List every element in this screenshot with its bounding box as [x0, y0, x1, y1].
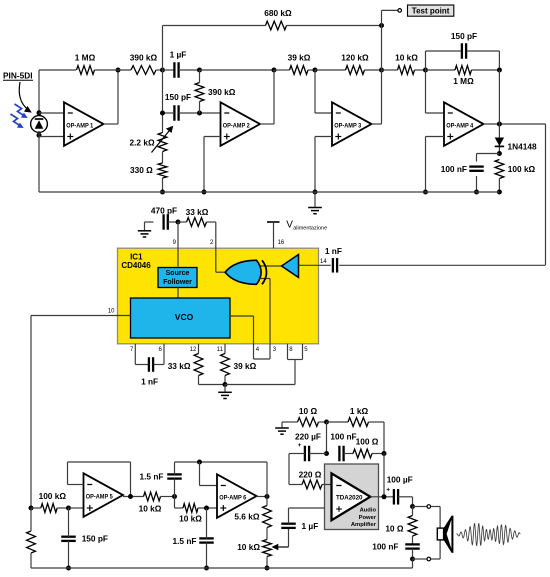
wire node A to C1	[163, 69, 175, 71]
wire XOR upper input	[256, 265, 282, 267]
pin 10 wire	[31, 315, 131, 317]
pin label 4	[256, 347, 260, 353]
svg-text:alimentazione: alimentazione	[293, 225, 327, 231]
resistor R13 39 k&#937;	[221, 354, 230, 376]
node R10 rail	[497, 190, 502, 195]
node 330 rail	[160, 190, 165, 195]
capacitor C13 220 &#181;F	[298, 442, 309, 461]
node pot rail	[265, 566, 270, 571]
wire op-amp 3 inv input	[315, 70, 332, 113]
label 1 &#181;F	[170, 49, 187, 59]
wire node F to R9	[426, 69, 456, 71]
svg-text:Audio: Audio	[360, 508, 377, 514]
label 390 k&#937;	[130, 53, 158, 63]
wire R9 to node G	[472, 69, 500, 71]
svg-text:1 kΩ: 1 kΩ	[350, 406, 369, 416]
label 1.5 nF lower	[173, 536, 197, 546]
wire C12 to TDA plus	[289, 508, 332, 524]
svg-text:OP-AMP 6: OP-AMP 6	[219, 494, 246, 501]
wire photodiode cathode vertical	[38, 70, 40, 117]
capacitor C8 1 nF pins 7-6	[149, 357, 153, 372]
svg-text:V: V	[286, 220, 293, 231]
svg-text:OP-AMP 2: OP-AMP 2	[223, 122, 250, 129]
node C5 rail	[474, 190, 479, 195]
wire node C to R5	[274, 69, 290, 71]
svg-text:470 pF: 470 pF	[151, 205, 177, 215]
wire C13 stubs	[289, 453, 327, 455]
wire op-amp 1 output	[104, 70, 119, 124]
label 1 nF pin14	[325, 246, 342, 256]
svg-text:CD4046: CD4046	[121, 261, 151, 270]
capacitor C6 470 pF	[164, 214, 168, 230]
leader arrow to photodiode	[19, 82, 32, 113]
pin label 3	[273, 347, 277, 353]
node photodiode anode	[37, 133, 42, 138]
resistor R11 33 k&#937;	[187, 218, 207, 227]
wire R20 to boucherot node	[369, 422, 385, 454]
resistor R14 100 k&#937;	[41, 504, 57, 513]
svg-text:OP-AMP 4: OP-AMP 4	[446, 122, 473, 129]
wire node to R11	[178, 221, 187, 223]
resistor R8 10 k&#937;	[398, 66, 415, 75]
wire R12 to ground node	[199, 376, 226, 385]
wire TDA minus	[322, 484, 332, 486]
svg-text:Test point: Test point	[412, 7, 450, 16]
wire R17 to op-amp 6 plus	[198, 507, 217, 509]
label 10 k&#937; op5 out	[139, 504, 162, 514]
wire to bottom terminal	[413, 558, 428, 560]
wire R13 to ground node	[224, 376, 226, 385]
node decoupling	[324, 451, 329, 456]
wire node A up to 680k row	[163, 26, 266, 71]
svg-text:1 MΩ: 1 MΩ	[453, 76, 474, 86]
node 2.2k top	[160, 111, 165, 116]
wire R10 to rail	[498, 179, 500, 193]
wire 150 pF branch	[426, 51, 500, 70]
node speaker top	[410, 504, 415, 509]
label 2.2 k&#937;	[130, 137, 155, 147]
pin label 12	[190, 347, 197, 353]
label 39 k&#937; pin 11	[234, 361, 257, 371]
resistor R10 100 k&#937;	[495, 160, 504, 179]
svg-text:390 kΩ: 390 kΩ	[130, 53, 158, 63]
pin label 16	[278, 240, 285, 246]
label 1N4148	[508, 142, 537, 152]
wire node G down	[498, 70, 500, 124]
node op-amp 4 plus rail	[423, 190, 428, 195]
capacitor C2 150 pF	[174, 105, 178, 121]
resistor R22 220 &#937;	[302, 480, 322, 489]
capacitor C16 100 nF	[405, 544, 420, 548]
wire C6 to node pin9	[168, 221, 178, 223]
node A	[160, 68, 165, 73]
svg-text:1 µF: 1 µF	[302, 521, 319, 531]
node G	[497, 68, 502, 73]
svg-text:5.6 kΩ: 5.6 kΩ	[234, 512, 259, 522]
wire supply node down	[326, 422, 328, 454]
svg-text:150 pF: 150 pF	[82, 534, 108, 544]
svg-text:OP-AMP 3: OP-AMP 3	[334, 122, 361, 129]
wire trimmer to 330	[162, 152, 164, 164]
sound waves	[457, 524, 521, 546]
wire R18 stubs	[266, 497, 268, 540]
label 220 &#181;F	[295, 432, 321, 442]
node C9 rail	[66, 566, 71, 571]
wire pins 8-5 bracket	[288, 344, 303, 360]
svg-text:16: 16	[278, 240, 285, 246]
svg-text:1 MΩ: 1 MΩ	[75, 53, 96, 63]
node F	[423, 68, 428, 73]
label 10 &#937; supply	[299, 406, 318, 416]
label 150 pF op-amp 4	[451, 31, 477, 41]
svg-text:150 pF: 150 pF	[165, 92, 191, 102]
speaker LS1	[437, 516, 453, 553]
svg-text:10 Ω: 10 Ω	[299, 406, 318, 416]
svg-text:+: +	[386, 487, 390, 494]
wire C2 to op-amp 2 inv input	[179, 112, 221, 114]
wire R15 stubs	[30, 508, 32, 568]
svg-text:100 nF: 100 nF	[372, 542, 398, 552]
wire C7 to op-amp4 output	[339, 264, 545, 266]
resistor R20 1 k&#937;	[348, 418, 369, 427]
op-amp U2 OP-AMP 2	[221, 102, 261, 146]
wire node H down	[175, 497, 184, 509]
svg-text:PIN-5DI: PIN-5DI	[3, 71, 33, 81]
TDA2020 body	[325, 464, 379, 530]
wire op-amp 6 feedback top	[175, 461, 268, 463]
label 100 nF decoupling	[330, 432, 356, 442]
ground vco	[218, 385, 232, 399]
wire cathode to op-amp 1 inverting input	[39, 112, 64, 114]
label 390 k&#937; feedback	[208, 87, 236, 97]
svg-text:10 kΩ: 10 kΩ	[139, 504, 162, 514]
wire R19 stubs	[290, 421, 327, 423]
wire pin 11	[224, 344, 226, 354]
svg-text:1 µF: 1 µF	[170, 49, 187, 59]
label audio power amplifier	[351, 508, 377, 529]
svg-text:Power: Power	[359, 515, 377, 521]
svg-text:14: 14	[320, 259, 327, 265]
svg-text:100 nF: 100 nF	[441, 164, 467, 174]
label 100 nF peak det	[441, 164, 467, 174]
svg-text:Source: Source	[166, 270, 190, 277]
op-amp U5 OP-AMP 5	[84, 473, 124, 517]
svg-text:1.5 nF: 1.5 nF	[173, 536, 197, 546]
wire node E up	[381, 26, 383, 71]
pin label 7	[130, 347, 134, 353]
svg-text:100 Ω: 100 Ω	[356, 437, 379, 447]
label 39 k&#937;	[288, 53, 311, 63]
ground supply 10 &#937;	[275, 422, 289, 434]
wire R4 stubs	[199, 70, 201, 113]
capacitor C12 1 &#181;F	[281, 524, 296, 528]
label 33 k&#937; pin2	[186, 207, 209, 217]
wire anode down to rail	[38, 131, 40, 192]
node boucherot top	[382, 451, 387, 456]
label 150 pF op-amp 2 input	[165, 92, 191, 102]
node E op-amp 3 output	[379, 68, 384, 73]
wire op-amp 4 inv input	[426, 70, 445, 113]
signal amplifier triangle	[282, 255, 299, 278]
capacitor C4 150 pF	[462, 43, 466, 59]
label 680 k&#937;	[264, 8, 292, 18]
svg-text:100 µF: 100 µF	[387, 475, 413, 485]
capacitor C5 100 nF	[469, 167, 484, 171]
svg-text:1N4148: 1N4148	[508, 142, 537, 152]
wire op-amp 3 plus input	[315, 137, 332, 193]
node op-amp 1 output	[116, 68, 121, 73]
node H	[172, 494, 177, 499]
label 100 k&#937; peak det	[508, 164, 536, 174]
label 100 k&#937; input	[39, 491, 67, 501]
wire op-amp 2 plus input	[204, 137, 221, 193]
label 10 k&#937;	[395, 53, 418, 63]
node op-amp 6 plus	[204, 506, 209, 511]
label 1.5 nF upper	[140, 472, 164, 482]
svg-text:Amplifier: Amplifier	[351, 522, 377, 528]
wire op-amp 5 feedback	[68, 462, 131, 497]
svg-text:2.2 kΩ: 2.2 kΩ	[130, 137, 155, 147]
svg-text:1 nF: 1 nF	[141, 377, 158, 387]
wire R2 to node A	[156, 69, 163, 71]
wire speaker bottom lead	[431, 540, 441, 559]
wire diode to 100nF branch	[477, 154, 500, 162]
wire C1 to node B	[179, 69, 200, 71]
svg-text:VCO: VCO	[175, 312, 194, 322]
node op-amp 2 inv input	[197, 111, 202, 116]
label 330 &#937;	[130, 165, 153, 175]
resistor R1 1 M&#937;	[77, 66, 95, 75]
capacitor C9 150 pF	[61, 537, 76, 541]
label 5.6 k&#937;	[234, 512, 259, 522]
label CD4046	[121, 261, 151, 270]
ground rail op-amp section	[39, 191, 499, 193]
svg-text:10: 10	[108, 309, 115, 315]
capacitor C14 100 nF	[339, 446, 343, 462]
node op-amp 2 plus rail	[202, 190, 207, 195]
wire VCO out to pin 4	[230, 316, 254, 344]
op-amp U4 OP-AMP 4	[444, 102, 484, 146]
wire pin 6	[153, 344, 164, 365]
wire C9 stubs	[68, 508, 70, 568]
node photodiode cathode	[37, 110, 42, 115]
label 100 &#181;F	[387, 475, 413, 485]
capacitor C1 1 &#181;F	[174, 62, 178, 78]
svg-text:100 nF: 100 nF	[330, 432, 356, 442]
wire TDA output	[370, 496, 394, 498]
resistor R5 39 k&#937;	[290, 66, 309, 75]
wire bottom node to rail	[412, 559, 414, 568]
terminal speaker top	[427, 505, 431, 509]
label 150 pF op-amp 5	[82, 534, 108, 544]
light arrow 2	[11, 114, 24, 128]
resistor R17 10 k&#937;	[183, 504, 198, 513]
terminal speaker bottom	[427, 557, 431, 561]
wire SF to VCO	[177, 288, 179, 299]
pin label 10	[108, 309, 115, 315]
wire to R20	[327, 421, 349, 423]
pin label 9	[173, 240, 177, 246]
node op-amp 6 output	[265, 494, 270, 499]
label 1 &#181;F TDA	[302, 521, 319, 531]
label 120 k&#937;	[341, 53, 369, 63]
capacitor C15 100 &#181;F	[386, 487, 398, 505]
label 1 M&#937;	[75, 53, 96, 63]
op-amp U1 OP-AMP 1	[64, 102, 104, 146]
resistor R6 330 &#937;	[158, 163, 167, 178]
op-amp U3 OP-AMP 3	[332, 102, 372, 146]
resistor R4 390 k&#937; feedback	[195, 83, 204, 102]
wire 680k to node E2	[287, 25, 382, 27]
svg-text:39 kΩ: 39 kΩ	[288, 53, 311, 63]
wire output down right side	[545, 124, 547, 265]
pin label 8	[289, 347, 293, 353]
node input divider	[29, 506, 34, 511]
label 100 &#937;	[356, 437, 379, 447]
resistor R12 33 k&#937;	[194, 354, 203, 376]
svg-text:12: 12	[190, 347, 197, 353]
resistor R18 5.6 k&#937;	[263, 506, 272, 528]
wire pins 8-5 to ground	[225, 360, 295, 385]
svg-text:100 kΩ: 100 kΩ	[39, 491, 67, 501]
wire R5 to node D	[308, 69, 315, 71]
svg-text:10 Ω: 10 Ω	[385, 524, 404, 534]
resistor R23 10 &#937;	[408, 516, 417, 537]
source follower block	[158, 268, 197, 288]
node C11 rail	[204, 566, 209, 571]
wire node D to R7	[315, 69, 346, 71]
wire C10 stubs	[174, 462, 176, 497]
node 680k right	[379, 23, 384, 28]
VCO block	[131, 298, 231, 338]
node vco ground	[223, 382, 228, 387]
ground op-amp 3	[308, 192, 322, 214]
svg-text:330 Ω: 330 Ω	[130, 165, 153, 175]
label 10 k&#937; volume	[237, 542, 260, 552]
label V alimentazione	[286, 220, 327, 232]
wire photodiode to feedback row	[39, 69, 76, 71]
node D	[313, 68, 318, 73]
svg-text:33 kΩ: 33 kΩ	[186, 207, 209, 217]
svg-text:10 kΩ: 10 kΩ	[179, 514, 202, 524]
wire anode to op-amp 1 non-inverting input	[39, 136, 64, 138]
label PIN-5DI	[3, 71, 33, 81]
wire node E to R8	[382, 69, 398, 71]
svg-text:10 kΩ: 10 kΩ	[395, 53, 418, 63]
svg-text:11: 11	[217, 347, 224, 353]
pin 9 wire	[177, 222, 179, 267]
node B	[197, 68, 202, 73]
svg-text:TDA2020: TDA2020	[336, 495, 363, 502]
wire pin 7	[135, 344, 149, 365]
node TDA output	[382, 494, 387, 499]
node speaker bottom	[410, 557, 415, 562]
resistor R15 bias	[27, 531, 36, 553]
photodiode PIN-5DI	[31, 116, 48, 133]
svg-text:+: +	[298, 442, 302, 449]
wire op-amp 4 output	[484, 123, 546, 125]
wire R16 to node H	[161, 496, 175, 498]
svg-text:680 kΩ: 680 kΩ	[264, 8, 292, 18]
pin label 6	[158, 347, 162, 353]
wire op-amp 4 plus input	[426, 137, 445, 193]
node op-amp 5 output	[128, 494, 133, 499]
resistor R19 10 &#937;	[298, 418, 319, 427]
potentiometer 10 k&#937;	[263, 540, 289, 557]
resistor R21 100 &#937;	[353, 449, 372, 458]
svg-text:39 kΩ: 39 kΩ	[234, 361, 257, 371]
label 100 nF zobel	[372, 542, 398, 552]
node supply filter	[324, 420, 329, 425]
label IC1	[130, 253, 143, 262]
wire to top terminal	[413, 506, 428, 508]
svg-text:33 kΩ: 33 kΩ	[168, 361, 191, 371]
wire C5 to rail	[476, 176, 478, 192]
pin label 5	[304, 347, 308, 353]
label 33 k&#937; pin 12	[168, 361, 191, 371]
svg-text:100 kΩ: 100 kΩ	[508, 164, 536, 174]
wire XOR lower input pin 3	[261, 279, 270, 344]
trimmer 2.2 k&#937;	[152, 126, 174, 153]
resistor R2 390 k&#937;	[131, 66, 156, 75]
wire pot to rail	[266, 557, 268, 569]
wire R11 to pin 2	[207, 222, 227, 272]
node op-amp 4 output	[497, 122, 502, 127]
wire 220 &#937; up	[289, 454, 302, 485]
wire op-amp 5 output	[123, 496, 144, 498]
pin label 2	[210, 240, 214, 246]
label 1 M&#937; op-amp 4	[453, 76, 474, 86]
wire test point	[382, 10, 398, 25]
wire node B to node C	[200, 69, 275, 71]
svg-text:OP-AMP 1: OP-AMP 1	[66, 122, 93, 129]
wire R7 to node E	[365, 69, 382, 71]
node op-amp 5 plus	[66, 506, 71, 511]
pin label 14	[320, 259, 327, 265]
resistor R3 680 k&#937;	[266, 21, 287, 30]
svg-text:Follower: Follower	[163, 279, 192, 286]
wire to op-amp 5 plus	[69, 507, 84, 509]
wire R21 to node	[372, 453, 384, 455]
pin 14 wire	[299, 264, 331, 266]
svg-text:220 µF: 220 µF	[295, 432, 321, 442]
label 10 k&#937; op6 in	[179, 514, 202, 524]
label 1 nF pins 7-6	[141, 377, 158, 387]
svg-text:120 kΩ: 120 kΩ	[341, 53, 369, 63]
test point terminal	[398, 9, 402, 13]
supply V alimentazione	[267, 222, 280, 248]
wire speaker top lead	[431, 507, 441, 529]
wire C15 to speaker node	[398, 497, 412, 507]
resistor R7 120 k&#937;	[346, 66, 365, 75]
wire 330 to rail	[162, 178, 164, 192]
wire R8 to node F	[415, 69, 426, 71]
IC1 CD4046 body	[118, 248, 319, 344]
wire node down to output	[383, 454, 385, 498]
svg-text:OP-AMP 5: OP-AMP 5	[86, 493, 113, 500]
ground 470 pF	[138, 222, 154, 237]
wire op-amp 6 output	[257, 496, 268, 498]
ground rail audio section	[31, 567, 413, 569]
phase comparator XOR gate	[225, 260, 266, 284]
wire C14 to R21	[344, 453, 353, 455]
node op-amp 6 minus tap	[197, 460, 202, 465]
svg-text:10 kΩ: 10 kΩ	[237, 542, 260, 552]
wire pin 10 down left	[30, 316, 32, 509]
label 470 pF	[151, 205, 177, 215]
wire C16 to bottom node	[412, 549, 414, 559]
svg-text:1.5 nF: 1.5 nF	[140, 472, 164, 482]
